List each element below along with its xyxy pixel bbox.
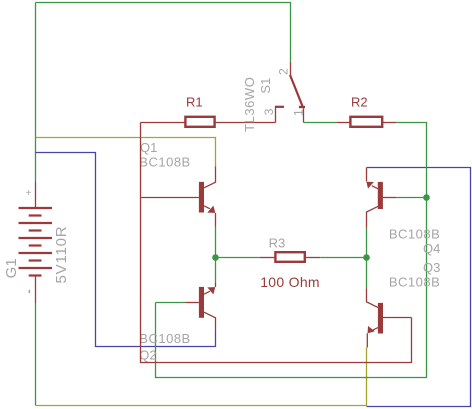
switch S1 pin3 contact [275, 107, 277, 123]
wire S1 pin1 to R2 [304, 122, 337, 124]
Q4 base lead red [383, 197, 397, 199]
wire blue to Q2 collector [36, 153, 216, 347]
svg-text:100 Ohm: 100 Ohm [260, 274, 320, 290]
node C junction dot (Q4 base / R2 net) [423, 194, 430, 201]
svg-text:R3: R3 [269, 236, 286, 251]
svg-text:1: 1 [291, 109, 305, 116]
Q3 base lead red [383, 317, 412, 319]
svg-text:R1: R1 [186, 94, 203, 109]
Q3 base bar [378, 303, 383, 334]
switch S1 pin2 stub [290, 62, 292, 76]
svg-text:3: 3 [262, 108, 276, 115]
svg-text:BC108B: BC108B [389, 226, 440, 241]
resistor R1 right lead, wire to S1 pin3 [216, 122, 276, 124]
wire red net R1/Q1 base/Q3 base [141, 123, 412, 363]
svg-text:S1: S1 [258, 78, 273, 94]
resistor R3 right wire [320, 257, 366, 259]
Q2 base lead red [185, 302, 199, 304]
svg-text:G1: G1 [3, 258, 20, 278]
transistor Q4 [366, 168, 426, 228]
transistor Q2 [185, 282, 215, 331]
resistor R3 left lead [260, 257, 275, 259]
resistor R2 right lead [383, 122, 396, 124]
svg-text:Q2: Q2 [139, 347, 156, 362]
svg-text:+: + [26, 188, 32, 199]
wire GND bottom olive [36, 348, 367, 406]
svg-text:Q3: Q3 [423, 260, 440, 275]
resistor R3 right lead [306, 257, 321, 259]
Q4 base bar [378, 182, 383, 209]
switch S1 pin1 lead [303, 108, 305, 122]
svg-text:TL36WO: TL36WO [242, 77, 257, 132]
wire olive to Q1 collector [36, 138, 216, 167]
wire green net R2 to Q2 base loop [156, 123, 427, 378]
switch S1 lever [290, 75, 303, 106]
node B junction dot [363, 254, 370, 261]
battery G1 top lead [35, 182, 37, 207]
battery G1 plates [19, 208, 53, 276]
node A junction dot [212, 254, 219, 261]
wire Q2 base green segment [156, 302, 186, 304]
svg-text:BC108B: BC108B [139, 331, 190, 346]
svg-text:5V110R: 5V110R [53, 226, 70, 284]
Q2 emitter [215, 282, 217, 287]
wire node B to Q3 collector [366, 258, 368, 289]
svg-text:Q4: Q4 [423, 241, 440, 256]
resistor R2 body [350, 117, 382, 127]
svg-text:R2: R2 [351, 94, 368, 109]
Q1 emitter [204, 206, 210, 209]
label G1 minus [29, 290, 31, 294]
Q4 collector [367, 206, 378, 227]
wire VCC left rail [35, 3, 37, 183]
wire GND left green [35, 303, 37, 406]
wire Q4 collector to node B [366, 228, 368, 258]
transistor Q3 [367, 288, 412, 347]
resistor R3 body [275, 252, 304, 262]
Q3 emitter [372, 328, 378, 331]
Q3 collector [367, 288, 378, 307]
svg-text:BC108B: BC108B [139, 155, 190, 170]
resistor R1 left lead [141, 122, 185, 124]
wire VCC top rail [36, 3, 291, 62]
svg-text:BC108B: BC108B [389, 275, 440, 290]
svg-text:Q1: Q1 [140, 140, 157, 155]
Q1 base bar [199, 182, 204, 213]
wire GND blue right [367, 168, 471, 407]
resistor R2 left lead [337, 122, 351, 124]
Q4 base wire green [396, 197, 426, 199]
Q4 emitter [366, 168, 368, 182]
Q1 base lead [141, 197, 199, 199]
battery G1 bottom lead [35, 277, 37, 304]
resistor R1 body [185, 117, 214, 127]
transistor Q1 [141, 167, 216, 227]
Q2 base bar [199, 287, 204, 318]
svg-text:2: 2 [277, 68, 291, 75]
Q2 collector [204, 312, 216, 331]
wire Q1 emitter to node A [215, 227, 217, 283]
Q1 collector [204, 167, 216, 188]
resistor R3 left wire [216, 257, 260, 259]
